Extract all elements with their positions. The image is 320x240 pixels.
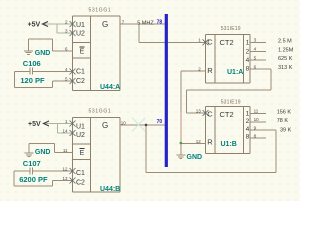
svg-text:13: 13 bbox=[196, 108, 202, 113]
svg-text:6200 PF: 6200 PF bbox=[19, 175, 48, 184]
svg-text:10: 10 bbox=[254, 117, 260, 122]
svg-text:1: 1 bbox=[246, 39, 250, 46]
svg-text:C: C bbox=[207, 38, 213, 47]
svg-text:5 MHZ: 5 MHZ bbox=[137, 21, 154, 27]
svg-text:2.5 M: 2.5 M bbox=[278, 39, 292, 45]
svg-text:11: 11 bbox=[63, 148, 68, 153]
svg-text:+5V: +5V bbox=[28, 121, 41, 128]
svg-text:1: 1 bbox=[246, 110, 250, 117]
svg-text:CT2: CT2 bbox=[220, 110, 234, 119]
svg-text:G: G bbox=[102, 121, 108, 130]
svg-text:313 K: 313 K bbox=[278, 65, 293, 71]
svg-text:39 K: 39 K bbox=[280, 127, 292, 133]
svg-text:156 K: 156 K bbox=[277, 110, 292, 116]
svg-text:E: E bbox=[80, 48, 85, 55]
svg-text:GND: GND bbox=[35, 50, 51, 57]
svg-text:531GG1: 531GG1 bbox=[89, 109, 112, 115]
svg-text:C1: C1 bbox=[76, 170, 85, 177]
svg-text:R: R bbox=[207, 66, 213, 75]
svg-text:U44:B: U44:B bbox=[100, 186, 120, 193]
svg-text:C: C bbox=[207, 110, 213, 119]
svg-text:C1: C1 bbox=[76, 68, 85, 75]
svg-text:13: 13 bbox=[62, 176, 68, 181]
svg-text:78: 78 bbox=[157, 19, 163, 25]
svg-text:U2: U2 bbox=[76, 30, 85, 37]
svg-text:531IE19: 531IE19 bbox=[221, 26, 241, 32]
svg-text:78 K: 78 K bbox=[277, 118, 289, 124]
svg-text:4: 4 bbox=[246, 126, 250, 133]
svg-text:120 PF: 120 PF bbox=[20, 76, 45, 85]
svg-text:R: R bbox=[207, 138, 213, 147]
svg-text:C2: C2 bbox=[76, 78, 85, 85]
svg-text:531GG1: 531GG1 bbox=[89, 7, 112, 13]
svg-text:14: 14 bbox=[62, 128, 68, 133]
svg-text:12: 12 bbox=[196, 139, 202, 144]
svg-text:C107: C107 bbox=[23, 159, 41, 168]
svg-text:GND: GND bbox=[35, 149, 51, 156]
svg-text:2: 2 bbox=[246, 118, 250, 125]
svg-text:C2: C2 bbox=[76, 179, 85, 186]
svg-text:U1: U1 bbox=[76, 123, 85, 130]
svg-text:10: 10 bbox=[121, 120, 127, 125]
svg-text:1: 1 bbox=[198, 38, 201, 43]
svg-text:12: 12 bbox=[62, 166, 68, 171]
svg-text:70: 70 bbox=[157, 119, 163, 125]
svg-text:U1: U1 bbox=[76, 22, 85, 29]
svg-text:8: 8 bbox=[246, 66, 250, 73]
svg-text:8: 8 bbox=[246, 134, 250, 141]
svg-text:U44:A: U44:A bbox=[100, 84, 120, 91]
svg-text:625 K: 625 K bbox=[278, 56, 293, 62]
svg-text:U2: U2 bbox=[76, 132, 85, 139]
svg-text:U1:B: U1:B bbox=[221, 141, 237, 148]
svg-text:4: 4 bbox=[246, 57, 250, 64]
svg-text:2: 2 bbox=[246, 49, 250, 56]
svg-text:C106: C106 bbox=[23, 59, 41, 68]
svg-text:G: G bbox=[102, 20, 108, 29]
svg-text:E: E bbox=[80, 150, 85, 157]
svg-text:531IE19: 531IE19 bbox=[221, 99, 241, 105]
svg-text:U1:A: U1:A bbox=[227, 69, 243, 76]
svg-text:GND: GND bbox=[187, 154, 203, 161]
svg-text:1.25M: 1.25M bbox=[278, 47, 294, 53]
svg-text:+5V: +5V bbox=[28, 21, 41, 28]
svg-text:CT2: CT2 bbox=[220, 38, 234, 47]
svg-text:11: 11 bbox=[254, 108, 259, 113]
